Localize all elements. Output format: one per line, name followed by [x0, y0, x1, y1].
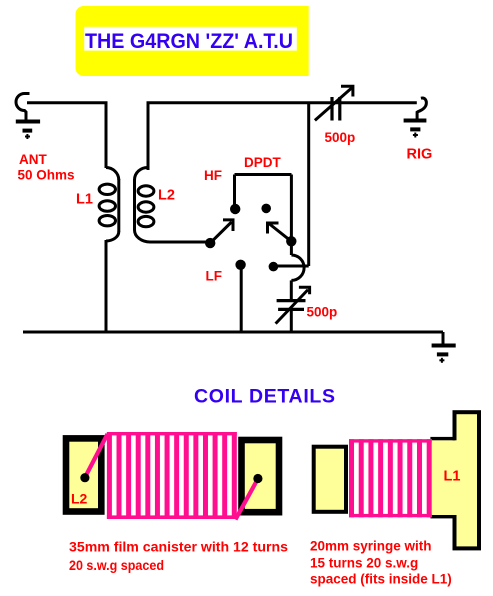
variable capacitor C1 500p plates — [332, 97, 340, 121]
switch S1 contact HF-B — [261, 204, 271, 214]
wire ANT to L1 top — [27, 103, 106, 168]
ground bus wire — [23, 331, 443, 334]
title banner — [76, 6, 309, 76]
wire L2 bottom to switch pole A — [150, 241, 210, 244]
L2 coil drawing: right end cap — [242, 440, 280, 512]
L2 coil drawing: winding — [107, 432, 237, 519]
wire hop (pole B over LF-B wire) — [291, 255, 304, 280]
svg-text:L2: L2 — [158, 187, 175, 203]
variable capacitor C1 arrow — [315, 86, 353, 120]
L1 coil drawing: neck top bar — [430, 437, 455, 440]
L2 terminal dot right — [253, 474, 262, 483]
svg-text:15 turns 20 s.w.g: 15 turns 20 s.w.g — [310, 555, 418, 570]
switch S1 pole B — [286, 236, 296, 246]
svg-text:HF: HF — [204, 168, 222, 183]
L1 coil drawing: flange notch opening — [451, 440, 459, 515]
svg-text:ANT: ANT — [19, 152, 47, 167]
variable capacitor C2 arrow — [276, 287, 310, 323]
svg-text:500p: 500p — [307, 305, 338, 320]
svg-text:LF: LF — [206, 269, 223, 284]
L2 coil drawing: left end cap — [66, 438, 101, 511]
ANT connector J1 — [16, 94, 29, 121]
svg-text:20mm syringe with: 20mm syringe with — [310, 538, 432, 553]
wire L1 bottom to ground bus — [105, 240, 108, 332]
inductor L1 — [99, 168, 119, 242]
wire top rail L2 to RIG — [148, 103, 417, 170]
L2 lead wire right — [236, 479, 259, 520]
RIG ground — [404, 121, 427, 138]
svg-text:50 Ohms: 50 Ohms — [18, 168, 75, 183]
svg-text:L1: L1 — [444, 468, 461, 484]
switch S1 contact LF-A — [235, 260, 245, 270]
ground (bus) — [432, 346, 456, 363]
svg-text:spaced (fits inside L1): spaced (fits inside L1) — [310, 572, 452, 587]
wire bracket right leg through pole B — [290, 175, 293, 256]
wire hop to C2 — [290, 280, 293, 300]
L1 coil drawing: flange — [455, 412, 480, 548]
svg-text:COIL DETAILS: COIL DETAILS — [194, 386, 335, 408]
switch S1 contact HF-A — [230, 204, 240, 214]
svg-text:RIG: RIG — [407, 147, 433, 163]
wire top rail junction to switch (node) — [307, 102, 310, 266]
wire C2 to ground bus — [290, 310, 293, 332]
RIG connector J2 — [417, 98, 426, 118]
L2 lead wire left — [85, 434, 108, 478]
L1 coil drawing: neck bottom bar — [430, 515, 455, 518]
L2 terminal dot left — [80, 473, 89, 482]
svg-text:20 s.w.g spaced: 20 s.w.g spaced — [69, 558, 164, 573]
svg-text:THE G4RGN 'ZZ' A.T.U: THE G4RGN 'ZZ' A.T.U — [85, 30, 293, 53]
wire LF-A contact to ground bus — [240, 265, 243, 332]
L1 coil drawing: winding — [349, 439, 432, 517]
switch S1 wiper arrow A — [210, 220, 233, 243]
ANT ground — [16, 122, 40, 140]
switch S1 contact LF-B — [269, 262, 279, 272]
switch S1 pole A — [205, 238, 215, 248]
wire LF-B contact to node — [273, 265, 308, 268]
svg-text:500p: 500p — [325, 130, 356, 145]
switch S1 wiper arrow B — [268, 223, 292, 241]
svg-text:DPDT: DPDT — [244, 155, 282, 170]
svg-text:L2: L2 — [71, 491, 88, 507]
switch S1 DPDT bracket — [235, 173, 292, 176]
wire bus to ground symbol — [442, 332, 445, 345]
svg-text:35mm film canister with 12 tur: 35mm film canister with 12 turns — [69, 540, 288, 555]
inductor L2 — [135, 167, 154, 242]
L1 coil drawing: plunger end — [314, 447, 346, 512]
svg-text:L1: L1 — [76, 192, 93, 208]
L1 coil drawing: neck — [432, 440, 452, 515]
variable capacitor C2 500p plates — [277, 301, 306, 310]
